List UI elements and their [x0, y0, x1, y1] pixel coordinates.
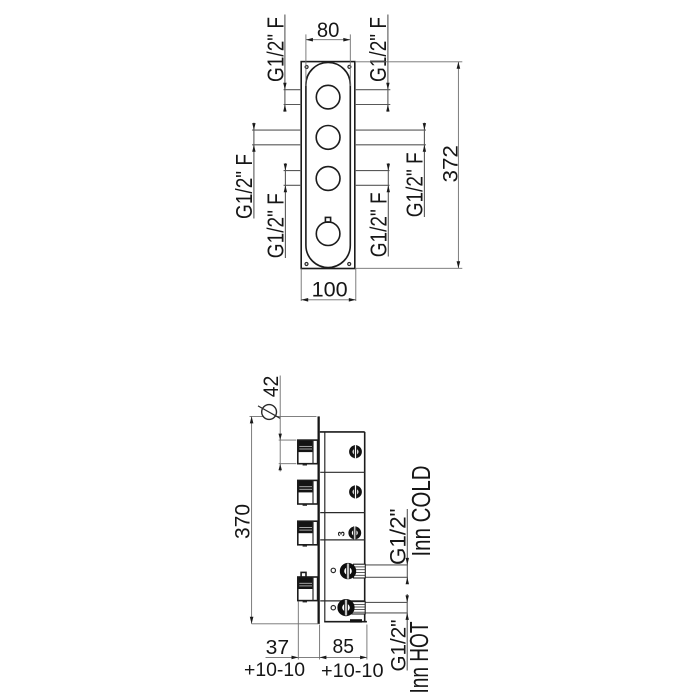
extension line knob face [297, 602, 299, 660]
knob 2 (side view) [298, 480, 318, 505]
knob 1 (side view) [298, 440, 318, 465]
port 1 left stub lines [284, 89, 302, 91]
side outlet port 3 (plugged) [350, 526, 359, 539]
dimension 80 extension lines [305, 34, 307, 86]
dimension 372 line with arrows [457, 62, 461, 268]
svg-text:80: 80 [317, 19, 340, 42]
leader G1/2" Inn HOT with arrows [406, 594, 409, 671]
svg-text:Inn COLD: Inn COLD [408, 466, 436, 557]
svg-text:Inn HOT: Inn HOT [406, 622, 434, 694]
leader port3 right with arrows [387, 163, 390, 256]
svg-text:G1/2" F: G1/2" F [263, 193, 289, 258]
svg-text:G1/2" F: G1/2" F [402, 152, 428, 217]
stadium shaped cover contour [306, 63, 350, 268]
cold inlet screw left of port [331, 568, 335, 572]
body compartment line 4 [320, 600, 365, 602]
leader G1/2" Inn COLD with arrows [406, 509, 409, 584]
hot inlet threaded nipple [352, 602, 408, 614]
port 2 left stub lines [252, 129, 301, 131]
leader port1 right with arrows [386, 15, 389, 112]
port 3 right stub lines [355, 170, 390, 172]
svg-text:+10-10: +10-10 [244, 659, 305, 681]
wall plate seen edge-on [318, 416, 320, 624]
svg-text:G1/2" F: G1/2" F [262, 17, 288, 82]
dimension 370 line with arrows [250, 416, 254, 623]
svg-text:37: 37 [266, 636, 290, 659]
knob circle 1 [316, 85, 340, 109]
mounting plate outline [301, 62, 355, 269]
screw hole bottom-right [348, 263, 351, 266]
svg-text:100: 100 [312, 279, 348, 302]
screw hole bottom-left [305, 263, 308, 266]
svg-text:G1/2" F: G1/2" F [365, 17, 391, 82]
body compartment line 2 [320, 512, 365, 514]
screw hole top-right [348, 65, 351, 68]
body bottom seal (thick) [350, 619, 362, 622]
cold inlet port circle [342, 564, 354, 579]
knob circle 3 [316, 167, 340, 191]
body compartment line 3 [320, 539, 365, 541]
hot inlet port circle [340, 600, 352, 616]
svg-text:3: 3 [336, 531, 347, 536]
safety button square on thermostat knob [325, 217, 330, 222]
knob 3 (side view) [298, 521, 318, 546]
dimension 100 extension lines [300, 269, 302, 302]
diameter 42 extension lines [279, 439, 297, 441]
port 3 left stub lines [284, 170, 302, 172]
svg-text:42: 42 [260, 376, 283, 398]
svg-text:+10-10: +10-10 [321, 660, 384, 682]
port 1 right stub lines [355, 89, 391, 91]
extension line inlet end [366, 625, 368, 660]
leader port1 left with arrows [283, 15, 286, 112]
diameter 42 dimension line with arrows [279, 376, 282, 472]
knob circle 2 [316, 125, 340, 149]
body bottom edge [324, 621, 367, 623]
body compartment line 1 [320, 471, 365, 473]
dimension 100 line with arrows [301, 298, 356, 302]
dimension 372 extension lines [355, 61, 462, 63]
thermostat knob 4 safety button [301, 572, 306, 577]
svg-text:85: 85 [333, 635, 355, 658]
dimension 80 line with arrows [306, 38, 350, 42]
side outlet port 1 (plugged) [351, 445, 360, 458]
hot inlet screw left of port [331, 606, 335, 610]
leader port2 left with arrows [252, 123, 255, 219]
side outlet port 2 (plugged) [351, 485, 360, 498]
body left wall [324, 432, 326, 622]
body right wall [364, 432, 366, 622]
knob circle 4 (thermostat) [316, 222, 340, 246]
extension line plate face [319, 625, 321, 660]
dimension 370 extension lines [250, 415, 317, 417]
svg-text:G1/2" F: G1/2" F [231, 154, 257, 219]
body top edge [320, 431, 365, 433]
knob 4 (side view, thermostat) [298, 577, 318, 602]
port 2 right stub lines [355, 129, 426, 131]
dimension line 37 / 85 with arrows [266, 656, 367, 660]
leader port3 left with arrows [284, 163, 287, 258]
diameter symbol of dimension 42 [258, 405, 280, 420]
screw hole top-left [305, 66, 308, 69]
cold inlet threaded nipple [353, 564, 408, 578]
svg-text:G1/2" F: G1/2" F [366, 192, 392, 257]
leader port2 right with arrows [423, 123, 426, 217]
svg-text:372: 372 [440, 145, 463, 183]
svg-text:370: 370 [232, 504, 255, 539]
